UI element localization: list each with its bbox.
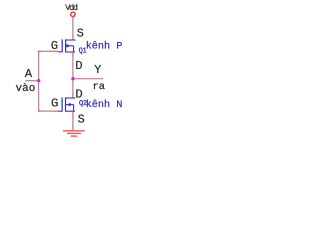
Q2 bulk lead with arrow bbox=[66, 104, 74, 106]
svg-text:vào: vào bbox=[16, 83, 36, 95]
Q1 bulk arrow head (points right: P-channel) bbox=[66, 44, 70, 48]
Q1 bulk lead with arrow bbox=[66, 45, 74, 47]
power terminal Vdd circle bbox=[71, 12, 75, 16]
junction node A bbox=[37, 79, 40, 82]
junction node output bbox=[71, 77, 74, 80]
wire A input stub bbox=[25, 80, 38, 82]
Q1 gate bar bbox=[61, 39, 63, 52]
Q2 source lead (bottom) bbox=[66, 110, 76, 112]
transistor Q1 (PMOS, kênh P) bbox=[58, 39, 76, 52]
svg-text:ra: ra bbox=[93, 81, 106, 93]
svg-text:Vdd: Vdd bbox=[65, 3, 78, 13]
wire input to Q2 gate bbox=[39, 110, 52, 112]
Q2 bulk arrow head (points left: N-channel) bbox=[66, 103, 70, 107]
Q2 bulk-source tie bbox=[73, 105, 75, 112]
svg-text:kênh P: kênh P bbox=[86, 40, 123, 52]
Q2 gate bar bbox=[61, 97, 63, 111]
input bus vertical wire bbox=[38, 51, 40, 112]
svg-text:S: S bbox=[77, 26, 84, 40]
svg-text:D: D bbox=[75, 59, 82, 73]
svg-text:S: S bbox=[78, 112, 85, 126]
wire Vdd to Q1 source bbox=[72, 17, 74, 37]
Q2 channel bar bbox=[65, 97, 67, 111]
wire corner salmon top bbox=[39, 51, 42, 53]
svg-text:kênh N: kênh N bbox=[86, 99, 123, 111]
Q1 drain lead (bottom) bbox=[66, 51, 75, 53]
Q1 channel bar bbox=[65, 39, 67, 52]
Q2 gate lead bbox=[58, 110, 62, 112]
Q1 source lead (top) bbox=[66, 39, 76, 41]
svg-text:A: A bbox=[25, 67, 33, 81]
Q2 drain lead (top) bbox=[66, 97, 76, 99]
wire output branch to Y bbox=[73, 78, 103, 80]
Q1 bulk-drain tie bbox=[73, 46, 75, 53]
transistor Q2 (NMOS, kênh N) bbox=[58, 97, 76, 111]
wire Q2 source to ground bbox=[72, 112, 74, 117]
svg-text:G: G bbox=[51, 96, 58, 110]
ground symbol bbox=[63, 131, 85, 136]
wire corner salmon bottom bbox=[39, 110, 42, 112]
svg-text:Y: Y bbox=[94, 63, 101, 77]
wire Q1 drain to Q2 drain bbox=[72, 53, 74, 57]
Q1 gate lead bbox=[58, 51, 63, 53]
wire input to Q1 gate bbox=[39, 50, 51, 52]
